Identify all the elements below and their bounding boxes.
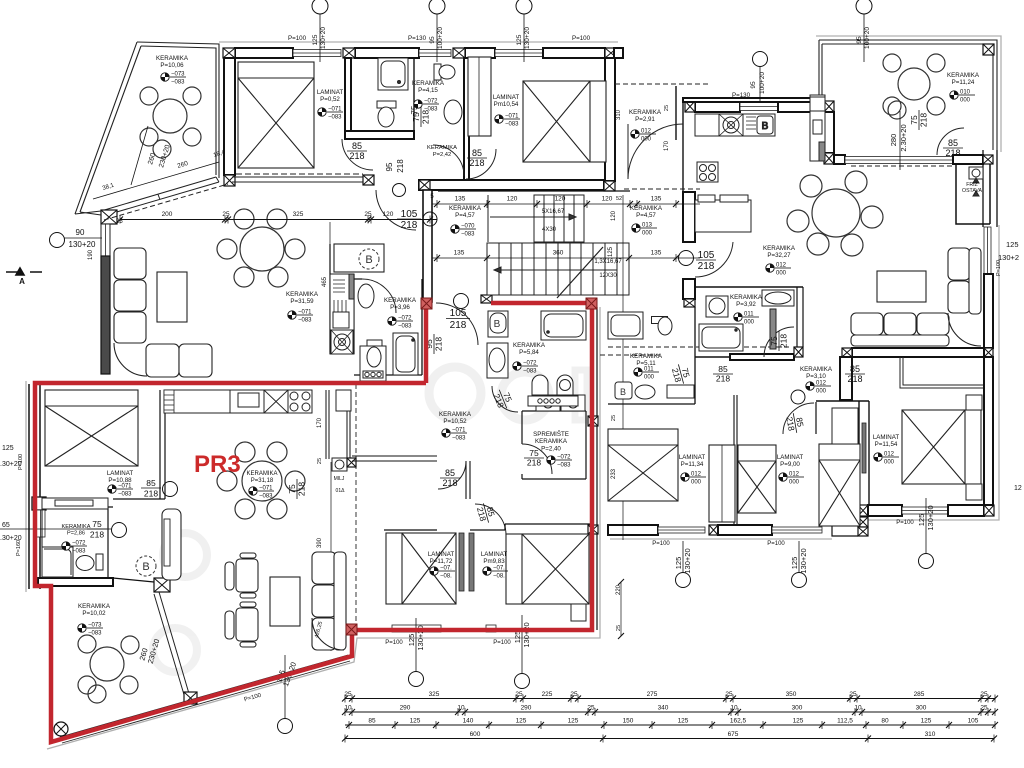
wall between KERAMIKA 3,10 room (840, 357, 852, 400)
PR3 bedroom1 wall (45, 498, 108, 500)
label 25c (317, 458, 323, 464)
wardrobe slats PR3 bedroom2 (459, 533, 474, 591)
svg-text:25: 25 (980, 691, 988, 698)
svg-text:130+20: 130+20 (69, 240, 96, 249)
label SPREMIŠTE (533, 431, 569, 452)
right building south wall of living (852, 348, 984, 357)
door bath mid right 75/218 (769, 331, 789, 351)
svg-text:125: 125 (312, 34, 319, 45)
door stair hall 105/218 (397, 209, 421, 231)
fridge FRIZ (969, 167, 983, 196)
door bath1 85/218 (347, 141, 367, 161)
svg-text:105: 105 (968, 718, 979, 725)
svg-text:012: 012 (691, 472, 702, 478)
svg-text:75: 75 (529, 448, 539, 458)
svg-text:280: 280 (889, 134, 898, 147)
svg-text:218: 218 (297, 482, 307, 496)
left living room west wall (101, 224, 110, 256)
svg-text:KERAMIKA: KERAMIKA (427, 145, 457, 151)
label LAMINAT (481, 551, 508, 565)
staircase lower flight (487, 243, 629, 298)
entry room KERAMIKA P=2,91 walls (615, 83, 710, 85)
svg-text:233: 233 (611, 468, 617, 479)
storage SPREMISTE walls (522, 411, 586, 479)
door arc terrace room TR (937, 128, 964, 155)
door 75/218 top (to storage corridor) (492, 386, 518, 412)
svg-text:340: 340 (658, 705, 669, 712)
svg-text:125: 125 (608, 246, 614, 257)
door arc lower hall (475, 504, 506, 535)
svg-text:125: 125 (568, 718, 579, 725)
svg-text:P=2,42: P=2,42 (433, 152, 452, 158)
svg-text:25: 25 (344, 691, 352, 698)
svg-text:B: B (620, 387, 626, 397)
height symbol laminat 11,34 (681, 472, 706, 486)
svg-text:350: 350 (786, 691, 797, 698)
upper apartment kitchen niche walls (330, 244, 354, 354)
label 220 (616, 584, 622, 595)
upper apt bath1: shower (378, 58, 408, 90)
PR3 B dashed circle (136, 556, 156, 576)
sofa upper apartment L-shape (114, 248, 212, 377)
top dim d (856, 0, 872, 62)
svg-text:25: 25 (980, 705, 988, 712)
svg-text:P=31,59: P=31,59 (290, 298, 314, 305)
height symbol keramika 10,02 (78, 623, 103, 637)
svg-text:600: 600 (470, 731, 481, 738)
staircase upper flight (488, 195, 584, 242)
label KERAMIKA (947, 72, 980, 86)
dining table right apartment (787, 171, 883, 256)
svg-text:170: 170 (317, 417, 323, 428)
svg-text:011: 011 (644, 367, 654, 373)
storage door arc (522, 444, 552, 474)
label 170 (317, 417, 323, 428)
svg-text:218: 218 (144, 489, 158, 499)
svg-text:−07.: −07. (493, 566, 505, 572)
svg-text:OSTAVA: OSTAVA (962, 188, 982, 194)
svg-text:LAMINAT: LAMINAT (317, 89, 344, 96)
label 25rb (611, 415, 617, 421)
svg-text:P=4,57: P=4,57 (636, 212, 656, 219)
label 125r (608, 246, 614, 257)
svg-text:−071: −071 (118, 484, 132, 490)
svg-text:000: 000 (641, 137, 652, 143)
bottom dim b5 (917, 498, 935, 569)
svg-text:P=11,34: P=11,34 (681, 461, 704, 468)
label KERAMIKA (730, 294, 763, 308)
PR3 bottom-left diagonal window band (on red) (60, 655, 350, 743)
svg-text:−072: −072 (557, 455, 571, 461)
26/25 ticks right of PR3 bottom (618, 579, 624, 585)
svg-text:218: 218 (442, 478, 457, 488)
room KERAMIKA 10,52 walls (352, 456, 437, 461)
door PR3 room2 85/218 (474, 501, 498, 525)
dining table top-right terrace (883, 54, 945, 119)
PR3 kitchen counter row (164, 390, 351, 413)
label friz (962, 180, 982, 194)
upper apt bath 3,96: bathtub (393, 333, 418, 375)
svg-text:−072: −072 (398, 316, 412, 322)
wall between entry and kitchen wing (683, 98, 824, 102)
svg-text:325: 325 (293, 211, 304, 218)
wall south of KERAMIKA 3,10 room (816, 400, 869, 402)
svg-text:P=10,02: P=10,02 (82, 610, 106, 617)
bed right-bldg bedroom1 (P=11,34) (608, 429, 678, 501)
dashed line bedroom1 (236, 173, 363, 175)
label KERAMIKA (412, 80, 445, 94)
svg-text:95: 95 (385, 162, 394, 171)
door to bath 3,96 (362, 279, 396, 313)
svg-text:−071: −071 (452, 428, 466, 434)
svg-text:112,5: 112,5 (837, 718, 853, 725)
svg-text:218: 218 (90, 530, 104, 540)
svg-text:285: 285 (914, 691, 925, 698)
svg-text:125: 125 (917, 514, 926, 527)
right building east wall (983, 150, 997, 227)
top-left terrace outline (75, 42, 219, 215)
door storage hall 75/218 (490, 386, 516, 412)
svg-text:PR3: PR3 (194, 451, 241, 478)
height symbol laminat 11,72 (430, 566, 455, 580)
svg-text:10: 10 (457, 705, 465, 712)
bed right-bldg bedroom3 (819, 444, 860, 526)
right apt kitchen top row (695, 114, 775, 136)
svg-text:162,5: 162,5 (730, 718, 747, 725)
sofa right apartment (851, 248, 981, 346)
height symbol keramika 2,86 (62, 541, 87, 555)
svg-text:225: 225 (542, 691, 553, 698)
svg-text:218: 218 (349, 151, 364, 161)
height symbol laminat 9,00 (779, 472, 804, 486)
upper apt kitchen niche: B circle (359, 249, 379, 269)
label KERAMIKA (62, 524, 91, 536)
upper apt bath 3,96: toilet (367, 340, 382, 367)
dimension chain line2 (342, 705, 998, 717)
svg-text:105: 105 (401, 209, 418, 220)
svg-text:LAMINAT: LAMINAT (428, 551, 455, 558)
svg-text:KERAMIKA: KERAMIKA (947, 72, 980, 79)
svg-text:B: B (494, 319, 501, 330)
svg-text:4X30: 4X30 (542, 227, 557, 233)
dining table upper apartment (217, 209, 305, 287)
svg-text:P=32,27: P=32,27 (767, 252, 791, 259)
dashed diagonal below terrace (104, 184, 228, 220)
red hatch squares on boundary (421, 298, 432, 309)
svg-text:390: 390 (317, 537, 323, 548)
height symbol laminat 0,52 (318, 107, 343, 121)
svg-text:85: 85 (472, 148, 482, 158)
label LAMINAT (428, 551, 455, 565)
svg-text:SPREMIŠTE: SPREMIŠTE (533, 431, 569, 438)
svg-text:LAMINAT: LAMINAT (873, 434, 900, 441)
PR3 small bath: counter + basin (42, 498, 108, 509)
hatched strip left of PR3 kitchen (164, 390, 174, 413)
svg-text:P=100: P=100 (385, 640, 403, 646)
bed upper-left bedroom (238, 62, 314, 168)
bottom dim b1 (407, 618, 425, 687)
svg-text:LAMINAT: LAMINAT (679, 454, 706, 461)
nightstands right-bldg bedroom4 (966, 395, 982, 410)
svg-text:KERAMIKA: KERAMIKA (286, 291, 319, 298)
door PR3 room1 85/218 (440, 468, 460, 488)
svg-text:KERAMIKA: KERAMIKA (630, 353, 663, 360)
dashed mid right bldg (608, 346, 790, 348)
svg-text:130+20: 130+20 (524, 27, 531, 49)
label LAMINAT (873, 434, 900, 448)
PR3 small bath: shower (42, 547, 73, 577)
svg-text:KERAMIKA: KERAMIKA (384, 297, 417, 304)
svg-text:95: 95 (429, 36, 436, 44)
svg-text:325: 325 (429, 691, 440, 698)
svg-text:135: 135 (651, 250, 662, 257)
svg-text:012: 012 (884, 452, 895, 458)
svg-text:105: 105 (698, 250, 715, 261)
svg-text:000: 000 (960, 98, 971, 104)
svg-text:012: 012 (641, 129, 652, 135)
svg-text:120: 120 (611, 210, 617, 221)
label KERAMIKA (78, 603, 111, 617)
svg-text:125: 125 (407, 634, 416, 647)
svg-text:75: 75 (769, 336, 779, 346)
door label 75/218 PR3 small bath (87, 519, 107, 540)
coffee table PR3 (270, 577, 300, 626)
label KERAMIKA (384, 297, 417, 311)
svg-text:000: 000 (776, 271, 787, 277)
circle 65 door (112, 523, 127, 538)
svg-text:200: 200 (162, 211, 173, 218)
balcony right (900, 357, 988, 388)
svg-text:000: 000 (691, 480, 702, 486)
svg-text:120: 120 (602, 196, 613, 203)
label 25bb (616, 625, 622, 631)
svg-text:−073: −073 (88, 623, 102, 629)
south wall right bldg west part (608, 525, 658, 535)
label KERAMIKA (439, 411, 472, 425)
PR3: west wall (29, 384, 40, 589)
svg-text:310: 310 (925, 731, 936, 738)
svg-text:B: B (365, 254, 372, 266)
interior wall bedroom1/bath (345, 58, 351, 131)
svg-text:85: 85 (718, 364, 728, 374)
interior wall bath1/bath2 (413, 58, 415, 135)
svg-text:P=100: P=100 (288, 35, 307, 42)
upper apt bath2: washbasin (444, 100, 462, 124)
height symbol keramika 5,84 (513, 361, 538, 375)
svg-text:KERAMIKA: KERAMIKA (449, 205, 482, 212)
height symbol keramika 3,92 (734, 312, 759, 326)
svg-text:675: 675 (728, 731, 739, 738)
height symbol keramika 31,59 (288, 310, 313, 324)
svg-text:−071: −071 (328, 107, 342, 113)
dining table PR3 (217, 442, 305, 519)
svg-text:25: 25 (515, 691, 523, 698)
PR3 bedrooms top wall (384, 524, 592, 530)
svg-text:130+20: 130+20 (683, 548, 692, 573)
dimension chain line3 (345, 718, 998, 730)
upper apt bath1: toilet (377, 101, 396, 127)
label LAMINAT (317, 89, 344, 103)
nightstand PR3 bedroom3 (571, 604, 586, 621)
daybed PR3 left (162, 509, 181, 580)
label KERAMIKA 4,57 R (630, 205, 663, 219)
svg-text:218: 218 (421, 110, 431, 124)
svg-text:P=9,00: P=9,00 (780, 461, 800, 468)
svg-text:218: 218 (450, 320, 467, 331)
dimension line upper left (117, 211, 437, 224)
PR3 corridor walls (east of living) (326, 390, 350, 459)
label KERAMIKA (800, 366, 833, 380)
svg-text:65: 65 (2, 522, 10, 529)
svg-text:95: 95 (750, 81, 757, 89)
bed right-bldg bedroom2 (P=9,00) (738, 445, 776, 513)
svg-text:360: 360 (553, 250, 564, 257)
svg-text:125: 125 (410, 718, 421, 725)
svg-text:P=31,18: P=31,18 (251, 478, 274, 484)
svg-text:130+20: 130+20 (320, 27, 327, 49)
svg-text:25: 25 (611, 415, 617, 421)
upper apt: party wall M605-615 y58-181 already; wall under stairs left x430 (622, 195, 624, 540)
svg-text:−083: −083 (118, 492, 132, 498)
svg-text:000: 000 (642, 231, 653, 237)
svg-text:KERAMIKA: KERAMIKA (513, 342, 546, 349)
door right 75/218 (909, 110, 929, 130)
stair hall circle (454, 294, 469, 309)
bathroom mid right bldg (695, 287, 803, 357)
wardrobe right-bldg bedroom1 (709, 445, 735, 522)
upper apt tall kitchen column (330, 274, 354, 354)
sofa PR3 right column (312, 552, 346, 650)
svg-text:P=130: P=130 (408, 35, 427, 42)
svg-text:−072: −072 (523, 361, 537, 367)
door right terrace room 85/218 (943, 138, 963, 158)
svg-text:100+20: 100+20 (759, 72, 766, 94)
svg-text:P=11,24: P=11,24 (952, 79, 975, 86)
svg-text:P=5,84: P=5,84 (519, 349, 539, 356)
svg-text:−083: −083 (72, 549, 86, 555)
stairwell walls (423, 190, 432, 302)
svg-text:−072: −072 (72, 541, 86, 547)
svg-text:LAMINAT: LAMINAT (481, 551, 508, 558)
section marker A left (6, 268, 42, 275)
door 95 upper 95/218 (424, 334, 444, 354)
svg-text:300: 300 (916, 705, 927, 712)
corridor/stair south wall + door arcs upper apt (342, 139, 373, 170)
door keramika310 85/218 (845, 364, 865, 384)
svg-text:125: 125 (921, 718, 932, 725)
svg-text:−083: −083 (88, 631, 102, 637)
door wc right 75/218 (669, 362, 693, 386)
upper apt bath 3,96: washbasin oval (358, 284, 374, 308)
svg-text:310: 310 (616, 109, 622, 120)
PR3 hall bath: toilet + bidet (528, 375, 578, 406)
bottom dim b4 (790, 541, 808, 588)
svg-text:120: 120 (555, 196, 566, 203)
diagonal window band terrace (101, 177, 219, 216)
label LAMINAT (679, 454, 706, 468)
label KERAMIKA (286, 291, 319, 305)
right bldg bath mid: washbasin + tub (699, 290, 794, 351)
height symbol keramika 31,18 (249, 486, 274, 500)
height symbol keramika 3,96 (388, 316, 413, 330)
stair dimension lines (432, 204, 700, 258)
height symbol keramika 3,10 (806, 381, 831, 395)
svg-text:013: 013 (642, 223, 653, 229)
svg-text:190: 190 (88, 249, 94, 260)
svg-text:P=100: P=100 (652, 541, 670, 547)
svg-text:105: 105 (450, 308, 467, 319)
svg-text:290: 290 (521, 705, 532, 712)
bedroom walls right bldg (734, 395, 737, 524)
door 85/218 bedroom mid (783, 403, 814, 434)
svg-text:125: 125 (516, 718, 527, 725)
svg-text:P=3,10: P=3,10 (806, 373, 826, 380)
PR3 south wall of bath block (38, 578, 113, 586)
entry door arc right bldg (628, 124, 683, 179)
bottom wall of upper apartment (north wall of stairwell) (345, 131, 414, 139)
svg-text:85: 85 (850, 364, 860, 374)
pillow cabinet right-bldg bedroom3 (832, 408, 858, 444)
svg-text:−073: −073 (171, 72, 185, 78)
top dim c (516, 0, 532, 62)
svg-text:465: 465 (322, 276, 328, 287)
svg-text:P=2,40: P=2,40 (541, 445, 561, 452)
svg-text:218: 218 (779, 334, 789, 348)
door 85/218 into bedroom hall (438, 461, 466, 489)
top exterior wall of left building (223, 48, 617, 58)
svg-text:−083: −083 (171, 80, 185, 86)
svg-text:25: 25 (116, 219, 123, 225)
svg-text:85: 85 (445, 468, 455, 478)
svg-text:−083: −083 (298, 318, 312, 324)
svg-text:218: 218 (716, 374, 730, 384)
party wall upper (right bldg west wall) (614, 48, 623, 58)
height symbol laminat 10,88 (108, 484, 133, 498)
label LAMINAT (107, 470, 134, 484)
svg-text:P=10,06: P=10,06 (160, 62, 184, 69)
svg-text:2.30+20: 2.30+20 (899, 124, 908, 151)
bed upper-middle bedroom (P=10,54) (523, 81, 606, 162)
interior wall bath2/bedroom2 (464, 58, 469, 180)
height symbol keramika 4,57 R (632, 223, 657, 237)
svg-text:80: 80 (881, 718, 889, 725)
svg-text:75: 75 (909, 115, 919, 125)
crossed circle bottom-left (54, 722, 68, 736)
svg-text:−083: −083 (461, 232, 475, 238)
svg-text:P=100: P=100 (493, 640, 511, 646)
label KERAMIKA 2,42 (427, 145, 457, 158)
svg-text:01Δ: 01Δ (336, 488, 346, 494)
svg-text:130+20: 130+20 (799, 548, 808, 573)
svg-text:75: 75 (410, 105, 419, 114)
svg-text:−08.: −08. (440, 574, 452, 580)
svg-text:P=2,86: P=2,86 (67, 530, 85, 536)
svg-text:P=100: P=100 (572, 35, 591, 42)
PR3 hall bath: bathtub (541, 311, 586, 340)
svg-text:LAMINAT: LAMINAT (777, 454, 804, 461)
svg-text:130+20: 130+20 (926, 505, 935, 530)
svg-text:25: 25 (849, 691, 857, 698)
svg-text:KERAMIKA: KERAMIKA (246, 471, 277, 477)
PR3 terrace diagonal edge (154, 592, 190, 698)
label KERAMIKA (156, 55, 189, 69)
svg-text:−083: −083 (523, 369, 537, 375)
svg-text:218: 218 (847, 374, 862, 384)
armchairs PR3 (225, 553, 258, 647)
label KERAMIKA (629, 109, 662, 123)
svg-text:85: 85 (368, 718, 376, 725)
label 170r (664, 140, 670, 151)
